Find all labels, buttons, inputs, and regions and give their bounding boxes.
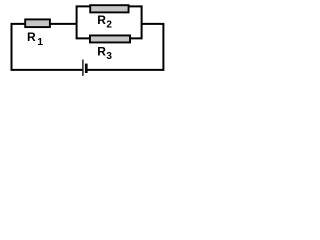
wire: bottom run from battery, right vertical, output wire to right rail [87, 24, 163, 70]
svg-text:R2: R2 [97, 13, 112, 31]
svg-text:R1: R1 [27, 30, 43, 48]
node B: right rail with wires from R2 and R3 [129, 6, 142, 38]
resistor R2 [90, 5, 128, 12]
resistor R1 [25, 19, 50, 27]
wire: top-left corner, left vertical, bottom-left run to battery [12, 24, 83, 70]
node A: left rail with branches to R2 and R3 [77, 6, 90, 38]
wire: R1 to node A [50, 23, 77, 25]
svg-text:R3: R3 [97, 45, 112, 63]
battery cell: long thin plate [82, 60, 84, 76]
resistor R3 [90, 35, 130, 42]
battery cell: short thick plate [85, 64, 88, 73]
